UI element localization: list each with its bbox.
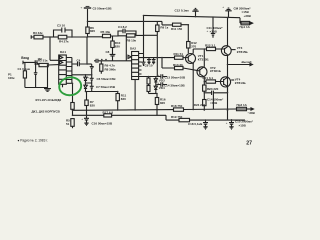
svg-text:КТ815Б: КТ815Б [237,50,249,54]
svg-text:R19 750: R19 750 [171,115,183,119]
svg-text:С4: С4 [77,58,81,62]
svg-text:С13 20мк×10В: С13 20мк×10В [165,75,186,79]
svg-text:С6 50мк×15В: С6 50мк×15В [97,77,117,81]
svg-text:820: 820 [121,97,126,101]
svg-text:С1 0,1мк: С1 0,1мк [18,67,31,71]
svg-text:+: + [200,121,202,125]
svg-text:+: + [158,73,160,77]
svg-text:51: 51 [66,122,70,126]
svg-text:Пр1 1А: Пр1 1А [240,25,251,29]
svg-text:+: + [87,76,89,80]
svg-text:+: + [226,121,228,125]
svg-text:27: 27 [246,140,252,146]
svg-text:R18 750: R18 750 [171,104,183,108]
svg-text:+: + [81,117,83,121]
svg-text:R13 30: R13 30 [173,63,183,67]
svg-text:Выход: Выход [242,60,252,64]
svg-text:С6: С6 [90,65,94,69]
svg-text:R8 360к: R8 360к [105,67,117,71]
svg-text:R11 150: R11 150 [171,27,183,31]
svg-text:КТ361Б: КТ361Б [210,69,222,73]
svg-text:+: + [209,87,211,91]
svg-text:С7 50мк×15В: С7 50мк×15В [96,85,116,89]
svg-text:100к: 100к [8,76,15,80]
svg-text:● Радио № 2, 1983 г.: ● Радио № 2, 1983 г. [18,138,49,142]
svg-text:С12 0,1мк: С12 0,1мк [175,9,190,13]
svg-text:С9 10: С9 10 [145,64,153,68]
svg-text:820: 820 [90,29,95,33]
svg-text:С3 10: С3 10 [57,23,65,27]
svg-text:R2 51к: R2 51к [38,58,48,62]
svg-text:С4 8,2: С4 8,2 [118,25,127,29]
svg-text:R4 27к: R4 27к [59,40,69,44]
svg-text:Пр2 1А: Пр2 1А [237,103,248,107]
svg-text:+: + [158,81,160,85]
svg-text:КТ814Б: КТ814Б [235,81,247,85]
svg-text:R11 51: R11 51 [174,52,184,56]
svg-text:R24 220: R24 220 [194,103,206,107]
svg-text:+: + [207,29,209,33]
svg-text:DA2: DA2 [130,46,136,50]
svg-text:С5 50мк×15В: С5 50мк×15В [93,6,113,10]
svg-text:КТ315Б: КТ315Б [198,58,210,62]
svg-text:×15В: ×15В [239,123,247,127]
svg-text:С14 30мк×15В: С14 30мк×15В [164,83,185,87]
svg-text:R22 3,1: R22 3,1 [205,43,216,47]
svg-text:820: 820 [90,104,95,108]
svg-text:R21 3,1: R21 3,1 [203,76,214,80]
svg-text:С16 50мк×15В: С16 50мк×15В [92,122,113,126]
svg-text:×15В: ×15В [210,101,218,105]
svg-text:КУ1-КУч К1БЗУД2: КУ1-КУч К1БЗУД2 [36,98,62,102]
svg-text:R9 1к: R9 1к [160,25,168,29]
svg-text:ДК1, ДК2 КОРПУСВ: ДК1, ДК2 КОРПУСВ [32,110,61,114]
svg-text:+: + [87,84,89,88]
svg-text:+: + [222,5,224,9]
svg-text:R8 10к: R8 10к [127,39,137,43]
svg-text:−30В: −30В [248,111,256,115]
svg-text:С8: С8 [106,50,110,54]
svg-text:+30В: +30В [244,14,252,18]
svg-text:Вход: Вход [21,56,29,60]
svg-text:+: + [81,5,83,9]
svg-text:×15В: ×15В [210,30,218,34]
svg-text:820: 820 [115,45,120,49]
svg-text:820: 820 [160,101,165,105]
svg-text:DA1: DA1 [60,50,66,54]
svg-text:R3 43к: R3 43к [33,31,43,35]
svg-text:R17 6,8: R17 6,8 [103,110,114,114]
svg-text:R5 43к: R5 43к [101,30,111,34]
svg-text:270: 270 [191,44,196,48]
